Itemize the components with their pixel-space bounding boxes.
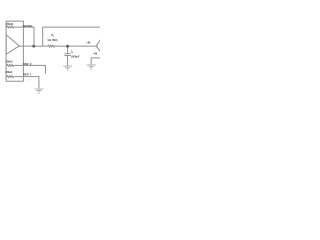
- svg-text:REF 1: REF 1: [23, 72, 32, 76]
- node dot CL/OUT: [66, 45, 69, 48]
- node dot SENSE/OUT: [32, 45, 35, 48]
- svg-text:1000µF: 1000µF: [71, 54, 80, 58]
- svg-text:–IN: –IN: [93, 51, 97, 55]
- ground cap: [64, 65, 72, 67]
- wire REF2: [23, 65, 45, 73]
- svg-text:+IN: +IN: [86, 40, 90, 44]
- op-amp U1: [6, 35, 19, 54]
- svg-text:20kΩ: 20kΩ: [5, 59, 13, 63]
- wire top feedback: [43, 27, 100, 46]
- svg-text:1Ω (5Ω): 1Ω (5Ω): [47, 38, 57, 42]
- resistor internal REF1: [6, 76, 23, 78]
- svg-text:SENSE: SENSE: [23, 24, 33, 28]
- svg-text:1 2: 1 2: [28, 80, 32, 82]
- svg-text:20kΩ: 20kΩ: [6, 22, 14, 26]
- resistor RFB internal 20k: [6, 26, 23, 28]
- wire output right: [56, 45, 97, 47]
- wire REF ground stem: [38, 77, 40, 89]
- speaker cone: [97, 40, 101, 51]
- svg-text:20kΩ: 20kΩ: [5, 70, 13, 74]
- resistor internal REF2: [6, 64, 23, 66]
- ground speaker: [87, 64, 95, 66]
- wire REF1: [23, 76, 39, 78]
- wire speaker minus: [91, 58, 100, 65]
- wire SENSE stub: [23, 27, 34, 46]
- resistor R series: [47, 45, 55, 47]
- speaker throat bar: [96, 44, 98, 48]
- svg-text:L: L: [72, 52, 73, 54]
- capacitor CL: [67, 46, 69, 54]
- wire output: [19, 45, 47, 47]
- op-amp box U1: [6, 21, 23, 81]
- ground REF: [35, 88, 43, 90]
- svg-text:REF 2: REF 2: [23, 62, 32, 66]
